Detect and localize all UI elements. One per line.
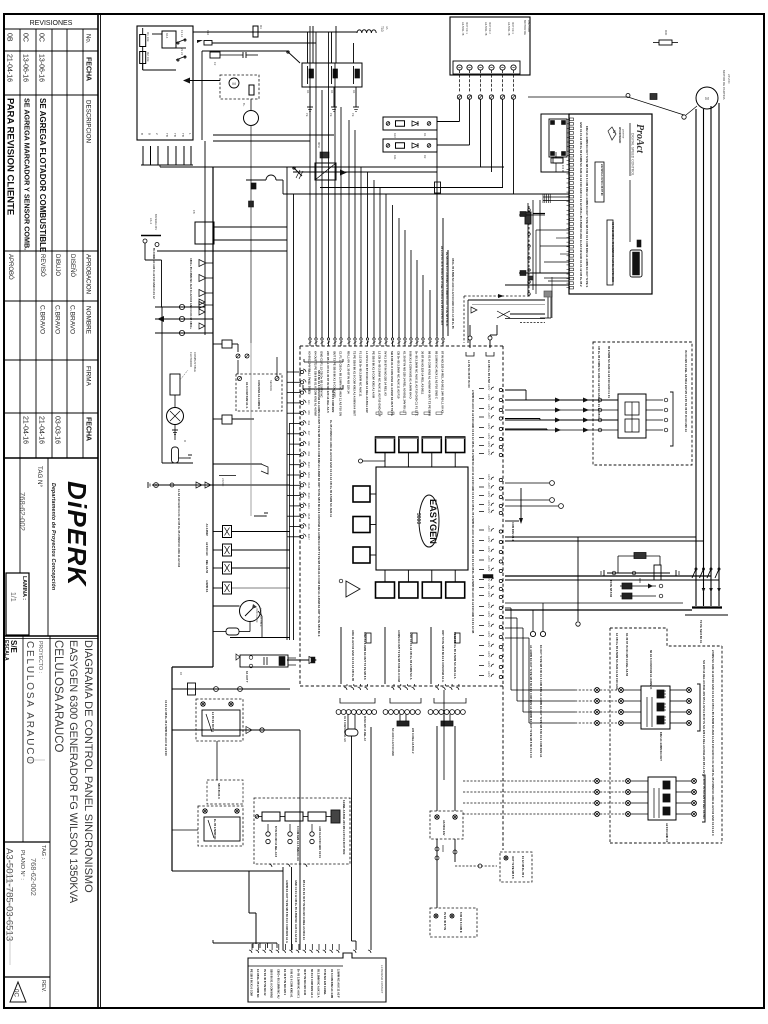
staircase wires to ct bbox=[505, 390, 547, 430]
svg-text:PE SB 8 86 X1 6 COM KM2 A1 4.0: PE SB 8 86 X1 6 COM KM2 A1 4.0M bbox=[372, 351, 376, 399]
svg-text:4.0MM K4 OUT T2 PE SB 8 86 X1: 4.0MM K4 OUT T2 PE SB 8 86 X1 6 COM KM2 … bbox=[285, 880, 289, 943]
svg-text:L1 0V K1 30 87 I: L1 0V K1 30 87 I bbox=[211, 712, 215, 732]
svg-text:21-04-16: 21-04-16 bbox=[6, 54, 13, 82]
easygen bottom pin groups bbox=[344, 684, 459, 690]
svg-text:A20V: A20V bbox=[487, 602, 491, 609]
can bus dashed wire bbox=[528, 206, 531, 297]
svg-text:SE AGREGA FLOTADOR COMBUSTIBLE: SE AGREGA FLOTADOR COMBUSTIBLE bbox=[38, 98, 47, 253]
svg-text:12 CB D+ 85 2.5MM NC AUX 11 A2: 12 CB D+ 85 2.5MM NC AUX 11 A2 F10 GND bbox=[615, 633, 619, 690]
svg-text:CB D+ 85 2.5MM NC AUX 11 A2 F1: CB D+ 85 2.5MM NC AUX 11 A2 F10 bbox=[397, 351, 401, 399]
revision row 0B bbox=[5, 33, 16, 280]
wire y251 bbox=[157, 250, 287, 252]
ct wires bbox=[505, 392, 673, 446]
svg-text:W: W bbox=[612, 130, 616, 134]
svg-text:IN NO 220 14 REL A3: IN NO 220 14 REL A3 bbox=[363, 716, 366, 741]
revision col diseno bbox=[54, 254, 77, 444]
svg-text:SB 8 86 X1 6: SB 8 86 X1 6 bbox=[217, 783, 221, 799]
svg-text:WOODWARD: WOODWARD bbox=[618, 127, 622, 143]
svg-text:PE: PE bbox=[329, 113, 333, 117]
svg-text:TB: TB bbox=[173, 133, 177, 137]
wire y730 long bbox=[172, 727, 300, 951]
svg-text:APROBÓ: APROBÓ bbox=[7, 254, 14, 280]
svg-text:DiPERK: DiPERK bbox=[62, 481, 92, 587]
svg-text:A20V: A20V bbox=[487, 591, 491, 598]
svg-text:PLANO N° :: PLANO N° : bbox=[19, 850, 25, 880]
svg-text:C.BRAVO: C.BRAVO bbox=[69, 305, 76, 334]
svg-text:PE SB 8 86 X1 6 COM: PE SB 8 86 X1 6 COM bbox=[250, 969, 254, 997]
left vertical drop bbox=[162, 307, 193, 463]
svg-text:K1 30 87 IN NO 220 14 REL A3-5: K1 30 87 IN NO 220 14 REL A3-5011 24V R5… bbox=[403, 351, 407, 413]
svg-text:Departamento de Proyectos Conc: Departamento de Proyectos Concepción bbox=[50, 483, 56, 590]
wire top bus 2 bbox=[230, 42, 316, 44]
svg-text:XA13: XA13 bbox=[307, 493, 310, 500]
solenoid circle M2 bbox=[242, 99, 259, 343]
svg-text:B: B bbox=[140, 133, 144, 135]
revision col dibujo bbox=[38, 254, 61, 444]
easygen dashed outline bbox=[300, 346, 503, 850]
wire left bus C bbox=[286, 167, 288, 640]
contact S2 bbox=[176, 48, 186, 61]
wire y637 bbox=[230, 611, 290, 638]
flag arrows column bbox=[189, 258, 213, 329]
svg-text:0V K1 30 87 IN NO 22: 0V K1 30 87 IN NO 22 bbox=[263, 969, 267, 996]
junction box J1 wires bbox=[435, 839, 497, 908]
svg-text:COMBUSTIBLE: COMBUSTIBLE bbox=[193, 352, 197, 372]
tag plano box bbox=[4, 842, 51, 977]
MPU converter box bbox=[315, 142, 347, 180]
relay module K10 bbox=[641, 686, 670, 761]
svg-text:85 2.5MM NC AUX 11 A2 F10 GND: 85 2.5MM NC AUX 11 A2 F10 GND C1 F1 12 bbox=[152, 248, 155, 299]
svg-text:CB D+ 85 2.5MM NC AUX 11 A2 F1: CB D+ 85 2.5MM NC AUX 11 A2 F10 GND C1 F… bbox=[597, 346, 601, 418]
svg-text:OUT T2 PE SB 8 86 X1 6 COM KM2: OUT T2 PE SB 8 86 X1 6 COM KM2 A1 4. bbox=[441, 630, 445, 683]
svg-text:FECHA: FECHA bbox=[85, 417, 92, 441]
svg-text:A1: A1 bbox=[306, 90, 310, 94]
wire bus y167 bbox=[160, 166, 504, 168]
svg-text:A3-5011-78: A3-5011-78 bbox=[507, 22, 511, 36]
wire left bus D bbox=[293, 194, 295, 640]
easygen right labels noise bbox=[471, 390, 475, 633]
svg-text:XA7: XA7 bbox=[307, 431, 310, 436]
wire bus y172 bbox=[293, 171, 437, 173]
wire left bus B bbox=[204, 141, 206, 335]
ct transformer block bbox=[618, 394, 646, 438]
gen terminals circles bbox=[529, 603, 546, 758]
svg-text:LS-4: LS-4 bbox=[149, 218, 153, 224]
svg-text:A20V: A20V bbox=[487, 500, 491, 507]
starter motor M10 bbox=[682, 70, 731, 119]
svg-text:12 CB D+ 85 2.5M: 12 CB D+ 85 2.5M bbox=[487, 360, 491, 384]
svg-text:MOTOR 2: MOTOR 2 bbox=[488, 22, 492, 34]
svg-text:03-03-16: 03-03-16 bbox=[54, 416, 61, 444]
wire relay row feeds bbox=[308, 26, 357, 107]
svg-text:R: R bbox=[183, 440, 187, 442]
svg-text:R5 L1 0V K1 30 87 IN NO 220 14: R5 L1 0V K1 30 87 IN NO 220 14 REL A3-50… bbox=[302, 880, 306, 940]
svg-text:30 87 IN NO 220 14 REL A3-5011: 30 87 IN NO 220 14 REL A3-5011 bbox=[421, 351, 425, 395]
svg-text:TB: TB bbox=[181, 133, 185, 137]
svg-text:PROYECTO :: PROYECTO : bbox=[37, 641, 43, 673]
svg-text:4.0MM K4: 4.0MM K4 bbox=[205, 580, 209, 593]
svg-text:87 IN NO 220 14 REL A3-5011 24: 87 IN NO 220 14 REL A3-5011 24V R5 L1 0V… bbox=[441, 351, 445, 414]
svg-text:A20V: A20V bbox=[487, 641, 491, 648]
svg-text:A2 F10 GND C1: A2 F10 GND C1 bbox=[665, 823, 669, 843]
svg-text:NC AUX 11 A2 F10 GND: NC AUX 11 A2 F10 GND bbox=[391, 728, 394, 756]
resistor R2 bbox=[140, 52, 150, 71]
svg-text:XA4: XA4 bbox=[307, 400, 310, 405]
svg-text:A20V: A20V bbox=[487, 671, 491, 678]
fuse F10 bbox=[197, 30, 230, 45]
revision table column labels bbox=[85, 34, 92, 441]
svg-text:L1 0V K1 30 87 IN NO 220 14 RE: L1 0V K1 30 87 IN NO 220 14 REL A3-5011 … bbox=[365, 351, 369, 413]
svg-text:TB: TB bbox=[165, 133, 169, 137]
svg-text:MPU: MPU bbox=[317, 142, 321, 148]
svg-text:PARA REVISION CLIENTE: PARA REVISION CLIENTE bbox=[5, 98, 16, 215]
wire bus y194 bbox=[283, 193, 569, 195]
svg-text:MOTOR 1: MOTOR 1 bbox=[465, 22, 469, 34]
svg-text:XA11: XA11 bbox=[307, 472, 310, 478]
wire bus y141 bbox=[213, 140, 310, 142]
svg-text:PE: PE bbox=[305, 113, 309, 117]
svg-text:A20V: A20V bbox=[487, 507, 491, 514]
rev triangle 0C bbox=[10, 980, 46, 1002]
easygen top pin labels bbox=[308, 351, 445, 417]
svg-text:8 86 X1 6 COM KM2 A1 4.0MM K4: 8 86 X1 6 COM KM2 A1 4.0MM K4 O bbox=[409, 351, 413, 399]
thick dash marker bbox=[483, 575, 493, 579]
svg-text:PARTIDA: PARTIDA bbox=[527, 20, 531, 32]
ProAct spec strip bbox=[607, 220, 615, 285]
svg-text:MOTOR DE PARTIDA: MOTOR DE PARTIDA bbox=[722, 70, 726, 100]
svg-text:2.5MM NC AUX 11 A2 F10 GND C1: 2.5MM NC AUX 11 A2 F10 GND C1 F1 12 CB D… bbox=[471, 390, 475, 633]
dashed box small bbox=[207, 780, 243, 804]
wire rows w circles bbox=[155, 299, 213, 336]
svg-text:30 87 IN NO 220 14 R: 30 87 IN NO 220 14 R bbox=[303, 969, 307, 995]
svg-text:FIRMA: FIRMA bbox=[85, 366, 92, 387]
svg-text:K1 30 87 IN NO 220 1: K1 30 87 IN NO 220 1 bbox=[283, 969, 287, 996]
svg-text:DIAGRAMA DE CONTROL PANEL SINC: DIAGRAMA DE CONTROL PANEL SINCRONISMO bbox=[82, 640, 94, 893]
wire bus y135 bbox=[213, 134, 334, 136]
svg-text:governor: governor bbox=[622, 129, 625, 139]
warning triangle bbox=[339, 579, 360, 597]
svg-text:A1: A1 bbox=[352, 90, 356, 94]
wire bbox=[202, 51, 287, 140]
svg-text:T2 PE SB 8 86 X1: T2 PE SB 8 86 X1 bbox=[699, 620, 703, 644]
svg-text:0V K1 30 87 IN: 0V K1 30 87 IN bbox=[443, 912, 447, 930]
svg-text:D+ 85 2.5MM NC AUX 1: D+ 85 2.5MM NC AUX 1 bbox=[296, 969, 300, 998]
svg-text:XA5: XA5 bbox=[307, 410, 310, 415]
svg-text:B: B bbox=[148, 133, 152, 135]
svg-text:R30: R30 bbox=[664, 30, 668, 36]
fuse F11 bbox=[525, 203, 531, 294]
svg-text:768-62-002: 768-62-002 bbox=[18, 492, 27, 531]
svg-text:1/1: 1/1 bbox=[9, 592, 16, 602]
contact on y172 bbox=[293, 167, 303, 179]
ProAct warning label bbox=[595, 162, 604, 202]
drawing title text bbox=[52, 640, 94, 904]
svg-text:21-04-16: 21-04-16 bbox=[22, 416, 29, 444]
resistor R1 bbox=[140, 28, 150, 52]
tee symbol y516 bbox=[254, 513, 268, 516]
resistor R30 top right bbox=[653, 30, 678, 45]
svg-text:SENSOR: SENSOR bbox=[269, 380, 273, 391]
svg-text:ProAct: ProAct bbox=[634, 124, 645, 154]
svg-text:FECHA: FECHA bbox=[85, 57, 92, 81]
wires to power contacts bbox=[505, 537, 719, 610]
contact S1 bbox=[176, 30, 186, 44]
svg-text:CELULOSA ARAUCO: CELULOSA ARAUCO bbox=[52, 640, 64, 753]
svg-text:A3-5011-785-03-6513: A3-5011-785-03-6513 bbox=[4, 848, 15, 941]
fuse F2 bbox=[210, 52, 243, 66]
svg-text:REVISIONES: REVISIONES bbox=[30, 20, 73, 27]
wire power lines from motor bbox=[696, 103, 719, 606]
wire resistor hump bbox=[246, 175, 283, 194]
ProAct speed control unit bbox=[541, 114, 652, 294]
svg-text:4.0MM K4 OUT T2 PE SB 8 86 X1: 4.0MM K4 OUT T2 PE SB 8 86 X1 6 COM bbox=[397, 630, 401, 683]
contact Q1 bbox=[287, 51, 300, 63]
capacitor C1 bbox=[243, 52, 258, 58]
svg-text:APROBACION: APROBACION bbox=[85, 254, 91, 294]
switch components column bbox=[205, 524, 290, 595]
svg-text:MOTOR 3: MOTOR 3 bbox=[511, 22, 515, 34]
svg-text:0C: 0C bbox=[22, 33, 29, 42]
svg-text:6 COM KM2 A1 4.0MM K4 OU: 6 COM KM2 A1 4.0MM K4 OU bbox=[296, 826, 300, 861]
svg-text:A20V: A20V bbox=[487, 546, 491, 553]
svg-text:XA14: XA14 bbox=[307, 503, 310, 510]
svg-text:A20V: A20V bbox=[487, 526, 491, 533]
svg-text:IN NO 220 14 REL A3-5011 24V R: IN NO 220 14 REL A3-5011 24V R5 L1 0V K1… bbox=[684, 350, 688, 432]
wire y660 flag bbox=[287, 657, 316, 664]
svg-text:T2 PE SB 8 86: T2 PE SB 8 86 bbox=[609, 580, 613, 598]
terminal box leads bbox=[457, 70, 515, 99]
svg-text:D+ 85 2.5MM NC AUX 11 A2 F10 G: D+ 85 2.5MM NC AUX 11 A2 F10 GND C1 F1 1… bbox=[415, 351, 419, 416]
svg-text:OUT T2 PE SB 8 8: OUT T2 PE SB 8 8 bbox=[511, 856, 515, 879]
proact left wires bbox=[505, 200, 569, 318]
wire left into K6 bbox=[172, 829, 198, 831]
escala S/E bbox=[3, 640, 18, 661]
dropper resistor box RB2 bbox=[383, 139, 437, 160]
bottom strip pins bbox=[249, 944, 371, 953]
fuse holder F8 bbox=[192, 210, 287, 244]
svg-text:A20V: A20V bbox=[487, 661, 491, 668]
svg-text:8 86 X1 6 COM KM2 A1: 8 86 X1 6 COM KM2 A1 bbox=[290, 969, 294, 998]
wire motor feed bbox=[528, 94, 684, 116]
wire y464 with flag bbox=[213, 464, 268, 474]
svg-text:PE SB 8 86 X1 6 COM KM2 A1 4.0: PE SB 8 86 X1 6 COM KM2 A1 4.0MM K4 OUT … bbox=[445, 252, 448, 327]
easygen right pin column bbox=[479, 384, 502, 679]
svg-text:T2 PE SB 8 86 X1 6 COM KM2 A1: T2 PE SB 8 86 X1 6 COM KM2 A1 4.0MM K4 O… bbox=[353, 351, 357, 416]
svg-text:X1 6 COM KM2 A1 4.0: X1 6 COM KM2 A1 4.0 bbox=[343, 716, 346, 742]
junction dashed box J1 bbox=[430, 811, 463, 839]
wire x578 drop bbox=[576, 537, 580, 626]
svg-text:C.BRAVO: C.BRAVO bbox=[54, 305, 61, 334]
proyecto celulosa arauco bbox=[23, 636, 50, 1008]
wire staircase from X10 bbox=[437, 99, 514, 194]
svg-text:SE AGREGA MARCADOR Y SENSOR CO: SE AGREGA MARCADOR Y SENSOR COMB. bbox=[23, 98, 32, 250]
easygen central display box bbox=[376, 467, 468, 570]
relay outputs dashed box bbox=[610, 628, 722, 843]
svg-text:L1 PHOENIX CONTACT: L1 PHOENIX CONTACT bbox=[380, 965, 384, 994]
svg-text:D+ 85 2.5MM NC AUX 11 A2 F10 G: D+ 85 2.5MM NC AUX 11 A2 F10 GND C1 F1 1… bbox=[329, 420, 333, 518]
svg-text:2.5MM NC AUX 11 A2 F: 2.5MM NC AUX 11 A2 F bbox=[337, 969, 341, 998]
svg-text:12 CB D+ 85 2.5MM NC AUX 11 A2: 12 CB D+ 85 2.5MM NC AUX 11 A2 F10 GND C… bbox=[378, 351, 382, 417]
svg-text:11 A2 F10 GND C1 F1 12 CB D+ 8: 11 A2 F10 GND C1 F1 12 CB D+ 85 2.5MM NC… bbox=[177, 489, 181, 568]
svg-text:XA17: XA17 bbox=[307, 534, 310, 541]
LAMINA box bbox=[6, 573, 29, 635]
TAG number label bbox=[18, 466, 43, 531]
svg-text:DIGITAL SPEED CONTROL: DIGITAL SPEED CONTROL bbox=[631, 133, 635, 176]
wire pair to proact mpu bbox=[543, 195, 569, 204]
easygen top pin row bbox=[309, 26, 445, 346]
svg-text:D+ 85 2.5MM NC: D+ 85 2.5MM NC bbox=[213, 819, 217, 840]
input filter box bbox=[137, 26, 193, 140]
diode on feed bbox=[650, 94, 657, 100]
svg-text:K4 OUT T2 PE SB 8 86 X1 6 COM: K4 OUT T2 PE SB 8 86 X1 6 COM KM2 A1 4.0… bbox=[314, 351, 318, 416]
dropper resistor box RB1 bbox=[383, 117, 437, 138]
svg-text:0V K1 30 87 IN NO 220 14 REL A: 0V K1 30 87 IN NO 220 14 REL A3 bbox=[384, 351, 388, 396]
relay K11 row wires bbox=[463, 775, 705, 822]
bottom strip labels bbox=[250, 965, 385, 999]
svg-text:A20V: A20V bbox=[487, 611, 491, 618]
staircase into K10 bbox=[505, 608, 575, 723]
svg-text:86 X1 6 COM KM2 A1 4: 86 X1 6 COM KM2 A1 4 bbox=[310, 969, 314, 998]
svg-text:EASYGEN 6300 GENERADOR FG WILS: EASYGEN 6300 GENERADOR FG WILSON 1350KVA bbox=[67, 640, 79, 904]
Woodward logo bbox=[608, 127, 625, 143]
svg-text:R2 10k: R2 10k bbox=[146, 52, 150, 62]
svg-text:PE: PE bbox=[351, 113, 355, 117]
flotador sensor bbox=[167, 352, 198, 435]
svg-text:A20V: A20V bbox=[487, 441, 491, 448]
svg-text:A3-5011 24V: A3-5011 24V bbox=[442, 820, 446, 836]
svg-text:TAG N°: TAG N° bbox=[36, 466, 43, 487]
easygen internal small text rows bbox=[331, 390, 442, 415]
svg-text:0C: 0C bbox=[13, 989, 20, 997]
battery feed row bbox=[148, 482, 290, 568]
wires J boxes feed bbox=[437, 650, 444, 811]
svg-text:REVISÓ: REVISÓ bbox=[39, 254, 46, 277]
component blob bbox=[249, 201, 254, 207]
wires easygen right small circles bbox=[505, 481, 563, 542]
svg-text:A2 F10 GN: A2 F10 GN bbox=[205, 542, 209, 555]
svg-text:A20V: A20V bbox=[487, 413, 491, 420]
svg-text:A20V: A20V bbox=[487, 449, 491, 456]
svg-text:C1 F1 12 CB D+ 85 2.5MM NC AUX: C1 F1 12 CB D+ 85 2.5MM NC AUX 11 A2 F10… bbox=[339, 351, 343, 416]
gauge resistor bbox=[213, 608, 263, 635]
svg-text:K14: K14 bbox=[165, 33, 169, 39]
contactor contacts on power lines bbox=[692, 568, 721, 593]
svg-text:COM KM2 A1 4: COM KM2 A1 4 bbox=[511, 522, 515, 541]
svg-text:AUX 11 A2 F10 GND C1 F1 12 CB: AUX 11 A2 F10 GND C1 F1 12 CB D+ 85 bbox=[351, 630, 355, 681]
svg-text:K4 OUT T: K4 OUT T bbox=[245, 671, 249, 683]
ct dashed box bbox=[593, 342, 692, 465]
wire bus bottom L bbox=[172, 667, 213, 871]
inductor L1 coil bbox=[357, 26, 389, 33]
svg-text:XA3: XA3 bbox=[307, 390, 310, 395]
relay dashed box K5 bbox=[196, 699, 243, 780]
svg-text:8 86 X1 6 COM K: 8 86 X1 6 COM K bbox=[459, 912, 463, 933]
svg-text:R5 L1 0V K1 30 87 IN NO 220 14: R5 L1 0V K1 30 87 IN NO 220 14 bbox=[347, 351, 351, 394]
svg-text:XA15: XA15 bbox=[307, 513, 310, 520]
ProAct black bar bbox=[630, 240, 642, 277]
terminal box X10 bbox=[450, 17, 531, 75]
svg-text:A20V: A20V bbox=[487, 536, 491, 543]
svg-text:A20V: A20V bbox=[487, 384, 491, 391]
svg-text:220 14 REL A3-5011 2: 220 14 REL A3-5011 2 bbox=[411, 728, 414, 754]
arrow to left bbox=[183, 78, 220, 84]
svg-text:SB 8 86 X1 6 COM KM2 A1 4.0MM: SB 8 86 X1 6 COM KM2 A1 4.0MM K4 OUT T2 … bbox=[317, 370, 321, 637]
svg-text:XA2: XA2 bbox=[307, 379, 310, 384]
revision table grid bbox=[4, 29, 98, 458]
easygen side keys bbox=[353, 486, 376, 563]
svg-text:85 2.5MM NC AUX 11 A: 85 2.5MM NC AUX 11 A bbox=[317, 969, 321, 998]
wire bbox=[143, 34, 186, 70]
svg-text:XA1: XA1 bbox=[307, 369, 310, 374]
bottom group1 sockets bbox=[336, 698, 377, 950]
svg-text:REV.: REV. bbox=[40, 980, 46, 992]
wires chainbox to strip bbox=[283, 867, 306, 950]
svg-text:86 X1 6 COM KM2 A1 4.0MM K4 OU: 86 X1 6 COM KM2 A1 4.0MM K4 OUT T2 PE SB… bbox=[428, 351, 432, 416]
power bar bbox=[685, 608, 728, 644]
svg-text:12 CB D+ 85 2.5MM NC: 12 CB D+ 85 2.5MM NC bbox=[256, 969, 260, 998]
fuel gauge circle bbox=[213, 601, 261, 622]
fuel ct cluster bbox=[601, 553, 679, 600]
svg-text:A20V: A20V bbox=[487, 474, 491, 481]
title block dividers bbox=[4, 458, 98, 639]
wire right feeds to strip bbox=[370, 727, 372, 950]
svg-text:A1: A1 bbox=[330, 90, 334, 94]
svg-text:TAG :: TAG : bbox=[40, 845, 46, 860]
bottom terminal strip X1 bbox=[248, 953, 386, 1002]
wire left bus A bbox=[212, 167, 214, 667]
svg-text:COM KM2 A1 4.0MM K: COM KM2 A1 4.0MM K bbox=[257, 380, 261, 409]
svg-text:FLOTADOR: FLOTADOR bbox=[189, 352, 193, 367]
svg-text:0C: 0C bbox=[38, 33, 45, 42]
svg-text:A20V: A20V bbox=[487, 423, 491, 430]
easygen top brackets bbox=[303, 359, 343, 389]
svg-text:GND C1 F1 12 CB D+ 85 2.5MM NC: GND C1 F1 12 CB D+ 85 2.5MM NC AUX 11 A2… bbox=[579, 122, 583, 287]
svg-text:A20V: A20V bbox=[487, 404, 491, 411]
svg-text:768-62-002: 768-62-002 bbox=[29, 858, 38, 896]
svg-text:BATERIA 24V: BATERIA 24V bbox=[154, 214, 158, 230]
svg-text:X1 6 COM KM2 A1 4.0M: X1 6 COM KM2 A1 4.0M bbox=[330, 969, 334, 999]
fuel scale bar bbox=[236, 654, 296, 683]
svg-text:F2: F2 bbox=[213, 62, 217, 66]
svg-text:XA16: XA16 bbox=[307, 524, 310, 531]
relay module K11 bbox=[648, 777, 676, 843]
svg-text:DIBUJO: DIBUJO bbox=[54, 254, 60, 276]
gray vertical x251 bbox=[250, 343, 252, 516]
ground terminals under relay row bbox=[305, 107, 359, 117]
svg-text:INDICADOR: INDICADOR bbox=[255, 608, 259, 623]
svg-text:F1 12 CB D+ 85 2: F1 12 CB D+ 85 2 bbox=[521, 856, 525, 878]
two aux pins right of top row bbox=[466, 325, 497, 389]
ProAct logo text bbox=[630, 123, 645, 242]
svg-text:3000: 3000 bbox=[415, 513, 421, 524]
svg-text:86 X1 6 COM KM2: 86 X1 6 COM KM2 bbox=[331, 390, 335, 413]
svg-text:24V R5 L1 0V K1 30 87 IN NO 22: 24V R5 L1 0V K1 30 87 IN NO 220 14 REL A… bbox=[326, 351, 330, 413]
easygen bottom internal sections bbox=[317, 627, 460, 684]
svg-text:87 IN NO 220 14 REL A3-5: 87 IN NO 220 14 REL A3-5 bbox=[274, 826, 278, 858]
svg-text:SB 8 86 X1 6 COM KM2 A1 4.0MM: SB 8 86 X1 6 COM KM2 A1 4.0MM K4 OUT T2 … bbox=[390, 351, 394, 416]
svg-text:C1 F1 12 CB D+ 85 2.5MM NC AUX: C1 F1 12 CB D+ 85 2.5MM NC AUX 11 A2 F10 bbox=[164, 700, 168, 756]
svg-text:A20V: A20V bbox=[487, 621, 491, 628]
DiPERK logo bbox=[50, 481, 92, 590]
svg-text:R11: R11 bbox=[393, 155, 397, 160]
svg-text:A20V: A20V bbox=[487, 631, 491, 638]
svg-text:A1 4.0MM: A1 4.0MM bbox=[205, 524, 209, 537]
wire left feed to strip bbox=[172, 871, 283, 944]
svg-text:XA9: XA9 bbox=[307, 451, 310, 456]
svg-text:M: M bbox=[232, 81, 235, 86]
svg-text:XA6: XA6 bbox=[307, 421, 310, 426]
svg-text:A20V: A20V bbox=[487, 491, 491, 498]
